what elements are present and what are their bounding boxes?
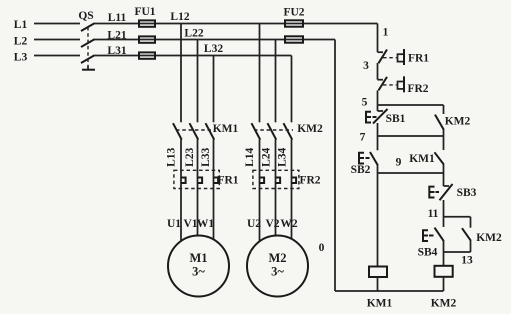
node L21 xyxy=(107,29,126,41)
wire L21 xyxy=(94,39,335,41)
wire control left rail xyxy=(334,40,336,292)
node L13 xyxy=(166,147,178,166)
svg-text:FR1: FR1 xyxy=(217,174,238,186)
wire control right rail top xyxy=(377,24,379,53)
svg-text:1: 1 xyxy=(383,27,389,39)
svg-text:KM1: KM1 xyxy=(213,123,239,135)
node L24 xyxy=(261,147,273,166)
wire L1 left segment xyxy=(34,23,80,25)
svg-text:11: 11 xyxy=(428,208,439,220)
node L32 xyxy=(204,43,223,55)
fuse FU2 xyxy=(283,6,304,42)
wire bottom line xyxy=(335,290,444,292)
push button SB3 xyxy=(429,173,476,200)
wire node 5 segment xyxy=(377,90,379,111)
node L23 xyxy=(184,147,196,166)
svg-text:L12: L12 xyxy=(170,11,189,23)
svg-text:SB3: SB3 xyxy=(457,187,477,199)
fuse FU1 xyxy=(134,6,155,59)
svg-text:SB4: SB4 xyxy=(418,247,438,259)
wire L31 xyxy=(94,55,292,57)
wire L2 left segment xyxy=(34,39,80,41)
wire M2 phase A lower xyxy=(259,140,261,242)
svg-text:3~: 3~ xyxy=(192,265,205,279)
node W1 xyxy=(197,218,215,230)
wire node 3 segment xyxy=(377,63,379,80)
svg-text:KM2: KM2 xyxy=(297,123,323,135)
node V2 xyxy=(265,218,279,230)
coil KM1 xyxy=(367,267,393,310)
node L3 xyxy=(14,51,28,63)
svg-text:SB1: SB1 xyxy=(386,113,406,125)
node 9 xyxy=(396,157,402,169)
node 1 xyxy=(383,27,389,39)
wire M1 phase B upper xyxy=(197,40,199,123)
node L31 xyxy=(107,45,126,57)
svg-text:3~: 3~ xyxy=(271,265,284,279)
svg-text:V1: V1 xyxy=(183,218,197,230)
wire SB4 to node 13 xyxy=(443,241,445,266)
wire M1 phase C lower xyxy=(213,140,215,240)
svg-text:KM2: KM2 xyxy=(476,232,502,244)
wire M2 phase B lower xyxy=(275,140,277,237)
svg-text:L21: L21 xyxy=(107,29,126,41)
svg-text:L24: L24 xyxy=(261,147,273,166)
svg-text:U2: U2 xyxy=(247,218,261,230)
wire node 7 branch xyxy=(378,135,444,137)
node L12 xyxy=(170,11,189,23)
motor M1 xyxy=(168,236,229,297)
node L14 xyxy=(244,147,256,166)
svg-text:FR2: FR2 xyxy=(299,174,320,186)
svg-text:KM1: KM1 xyxy=(409,153,435,165)
svg-text:9: 9 xyxy=(396,157,402,169)
wire M2 phase C upper xyxy=(291,56,293,123)
node L22 xyxy=(184,27,203,39)
wire node 5 branch xyxy=(378,104,444,106)
wire M2 phase C lower xyxy=(291,140,293,240)
wire SB3 to node 11 xyxy=(443,200,445,227)
wire node 9 line xyxy=(378,172,444,174)
node W2 xyxy=(280,218,298,230)
svg-text:KM1: KM1 xyxy=(367,298,393,310)
node 0 xyxy=(319,242,325,254)
motor M2 xyxy=(247,236,308,297)
svg-text:0: 0 xyxy=(319,242,325,254)
contactor KM1 main contacts xyxy=(173,123,239,140)
node 7 xyxy=(360,132,366,144)
svg-text:KM2: KM2 xyxy=(431,298,457,310)
svg-text:L22: L22 xyxy=(184,27,203,39)
wire M1 phase A lower xyxy=(180,140,182,242)
svg-text:U1: U1 xyxy=(167,218,181,230)
svg-text:5: 5 xyxy=(362,96,368,108)
svg-text:L11: L11 xyxy=(108,12,127,24)
switch QS xyxy=(78,10,95,70)
node 13 xyxy=(461,255,473,267)
svg-text:13: 13 xyxy=(461,255,473,267)
wire node 13 line xyxy=(444,251,471,253)
node V1 xyxy=(183,218,197,230)
svg-text:W1: W1 xyxy=(197,218,215,230)
node L11 xyxy=(108,12,127,24)
node L2 xyxy=(14,35,28,47)
svg-text:L33: L33 xyxy=(200,147,212,166)
contactor KM2 main contacts xyxy=(252,123,324,140)
push button SB1 xyxy=(366,109,406,125)
thermal relay FR2 heater elements xyxy=(253,170,321,188)
svg-text:FR2: FR2 xyxy=(407,83,428,95)
contactor contact KM1 aux (parallel SB2) xyxy=(409,136,444,173)
svg-text:FU2: FU2 xyxy=(283,6,304,18)
node 5 xyxy=(362,96,368,108)
thermal contact FR2 xyxy=(378,76,429,95)
wire node 11 branch xyxy=(444,216,471,218)
thermal relay FR1 heater elements xyxy=(174,170,239,188)
svg-text:SB2: SB2 xyxy=(351,164,371,176)
wire M1 phase A upper xyxy=(180,24,182,123)
svg-text:L3: L3 xyxy=(14,51,28,63)
svg-text:KM2: KM2 xyxy=(445,116,471,128)
contactor contact KM2 aux (parallel SB1) xyxy=(435,105,471,136)
svg-text:M2: M2 xyxy=(268,251,286,265)
contactor contact KM2 aux (parallel SB4) xyxy=(462,217,502,252)
svg-text:M1: M1 xyxy=(189,251,207,265)
node U1 xyxy=(167,218,181,230)
wire SB1 to node 7 xyxy=(377,123,379,150)
wire SB2 to node 9 xyxy=(377,165,379,267)
node L33 xyxy=(200,147,212,166)
coil KM2 xyxy=(431,266,457,310)
node 11 xyxy=(428,208,439,220)
svg-text:V2: V2 xyxy=(265,218,279,230)
wire M2 phase A upper xyxy=(259,24,261,123)
svg-text:7: 7 xyxy=(360,132,366,144)
svg-text:L14: L14 xyxy=(244,147,256,166)
node 3 xyxy=(363,60,369,72)
thermal contact FR1 xyxy=(378,49,430,65)
wire M1 phase C upper xyxy=(213,56,215,123)
svg-text:L32: L32 xyxy=(204,43,223,55)
svg-text:3: 3 xyxy=(363,60,369,72)
svg-text:L31: L31 xyxy=(107,45,126,57)
node L34 xyxy=(277,147,289,166)
node L1 xyxy=(14,19,28,31)
wire M1 phase B lower xyxy=(197,140,199,237)
svg-text:L13: L13 xyxy=(166,147,178,166)
svg-text:L23: L23 xyxy=(184,147,196,166)
wire M2 phase B upper xyxy=(275,40,277,123)
svg-text:FR1: FR1 xyxy=(408,53,429,65)
svg-text:L2: L2 xyxy=(14,35,28,47)
svg-text:FU1: FU1 xyxy=(134,6,155,18)
node U2 xyxy=(247,218,261,230)
push button SB4 xyxy=(418,228,444,259)
svg-text:QS: QS xyxy=(78,10,93,22)
push button SB2 xyxy=(351,152,378,176)
wire L11 xyxy=(94,23,378,25)
svg-text:L1: L1 xyxy=(14,19,28,31)
svg-text:W2: W2 xyxy=(280,218,298,230)
wire L3 left segment xyxy=(34,55,80,57)
svg-text:L34: L34 xyxy=(277,147,289,166)
